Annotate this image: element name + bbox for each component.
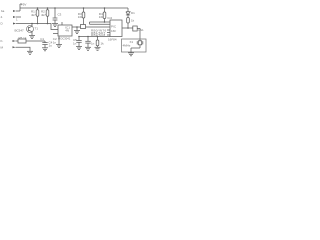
ground under C3 [52,24,58,27]
resistor R6 inline [81,25,86,29]
resistor R2 [46,8,49,24]
svg-text:1k: 1k [131,19,135,23]
capacitor C3 from rail [53,8,58,24]
svg-text:16F84: 16F84 [108,37,117,41]
wire IC1 bottom to ground [58,36,60,45]
wire IC1 output to IC2 [72,26,110,28]
crystal box [122,39,147,52]
svg-text:LS1: LS1 [138,28,144,32]
ground right of IC1 [74,31,80,34]
wire IC2 pin y24 [90,23,111,25]
node +5V stub [19,4,21,11]
capacitor CB [85,37,90,48]
svg-text:16F: 16F [111,29,116,33]
svg-text:IC2: IC2 [108,16,113,20]
svg-text:C1: C1 [40,37,44,41]
wire IC2 pin stub y30 [107,29,110,31]
connector K2 box [133,26,137,31]
wire to ground from node [76,27,78,31]
ground under C4 [42,48,48,51]
svg-text:RB2/SC8: RB2/SC8 [91,33,106,37]
IC1 optocoupler box [58,25,72,36]
wire IC1 top stub [61,22,63,25]
ground under CA [76,47,82,50]
capacitor CA [76,37,81,47]
labels [1,3,144,50]
svg-text:4.: 4. [1,15,4,19]
ground row5 [27,51,33,54]
svg-text:1n: 1n [91,42,95,46]
capacitor C4 [42,41,47,48]
svg-text:D1: D1 [131,11,135,15]
svg-text:4k7: 4k7 [31,13,36,17]
wire row4 to C4 [26,40,45,42]
wire P2 to IC2 [90,21,111,23]
svg-text:R5 1k: R5 1k [19,36,27,40]
crystal X1 [131,39,143,53]
resistor P1 from rail [82,8,85,25]
wire IC2 pin stub y35 [107,34,110,36]
svg-text:K.: K. [1,39,4,43]
svg-text:1k: 1k [101,42,105,46]
svg-text:4N: 4N [65,29,69,33]
wire input row5 [16,47,31,51]
resistor P2 from rail [103,8,106,22]
svg-text:1n: 1n [73,41,77,45]
wire IC1 left stub [53,33,58,35]
transistor T1 [27,24,34,36]
svg-text:10k: 10k [78,15,83,19]
wire IC2 pin stub y32 [107,32,110,34]
connector arrows [13,10,17,48]
svg-text:4k7: 4k7 [41,13,46,17]
wire K2 to crystal box [137,29,140,40]
wire input row2 [16,16,21,18]
resistor R1 [36,8,39,24]
IC2 microcontroller box [110,20,122,37]
junction dots [31,7,129,37]
svg-text:1n: 1n [53,40,57,44]
svg-text:T1: T1 [35,27,39,31]
wire input row1 [16,10,20,12]
wire IC2 output [122,27,133,29]
wire rail corner to LED [127,8,129,12]
svg-text:C3: C3 [58,13,62,17]
resistor RC [96,37,99,48]
svg-text:4MHz: 4MHz [123,44,131,48]
ground under T1 [29,36,35,39]
LED D1 [126,12,130,18]
svg-text:+5V: +5V [21,3,26,7]
ground under CB [85,47,91,50]
wire +5V rail [20,7,128,9]
wire input row3 node [16,24,58,30]
svg-text:X1: X1 [130,40,134,44]
resistor R5 inline [18,39,26,43]
ground under crystal box [128,53,134,56]
svg-text:BC547: BC547 [15,29,25,33]
wire IC2 bottom rail [79,36,110,38]
svg-text:1u: 1u [49,44,53,48]
svg-text:ba: ba [1,9,5,13]
ground under RC [95,47,101,50]
wire input row4 [16,40,19,42]
svg-text:MOC3041: MOC3041 [58,36,71,40]
ground under IC1 [56,45,62,48]
svg-text:10k: 10k [99,15,104,19]
resistor R7 [127,18,130,29]
svg-text:PIC: PIC [111,25,117,29]
